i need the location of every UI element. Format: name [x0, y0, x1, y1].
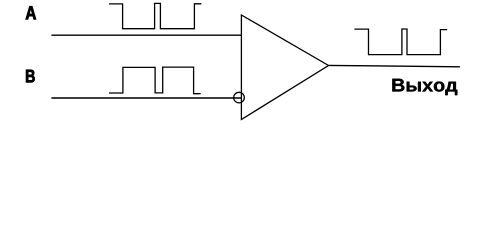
wire: output — [329, 65, 460, 66]
wire: input A — [51, 34, 241, 36]
waveform input A — [109, 3, 201, 28]
waveform output — [354, 29, 447, 55]
node B label — [26, 70, 35, 83]
gate U1 (buffer triangle) — [241, 15, 328, 120]
node A label — [26, 6, 36, 19]
junction circle on input B — [234, 92, 245, 103]
output label Выход — [392, 79, 457, 95]
wire: input B — [51, 97, 241, 99]
waveform input B — [109, 67, 201, 94]
